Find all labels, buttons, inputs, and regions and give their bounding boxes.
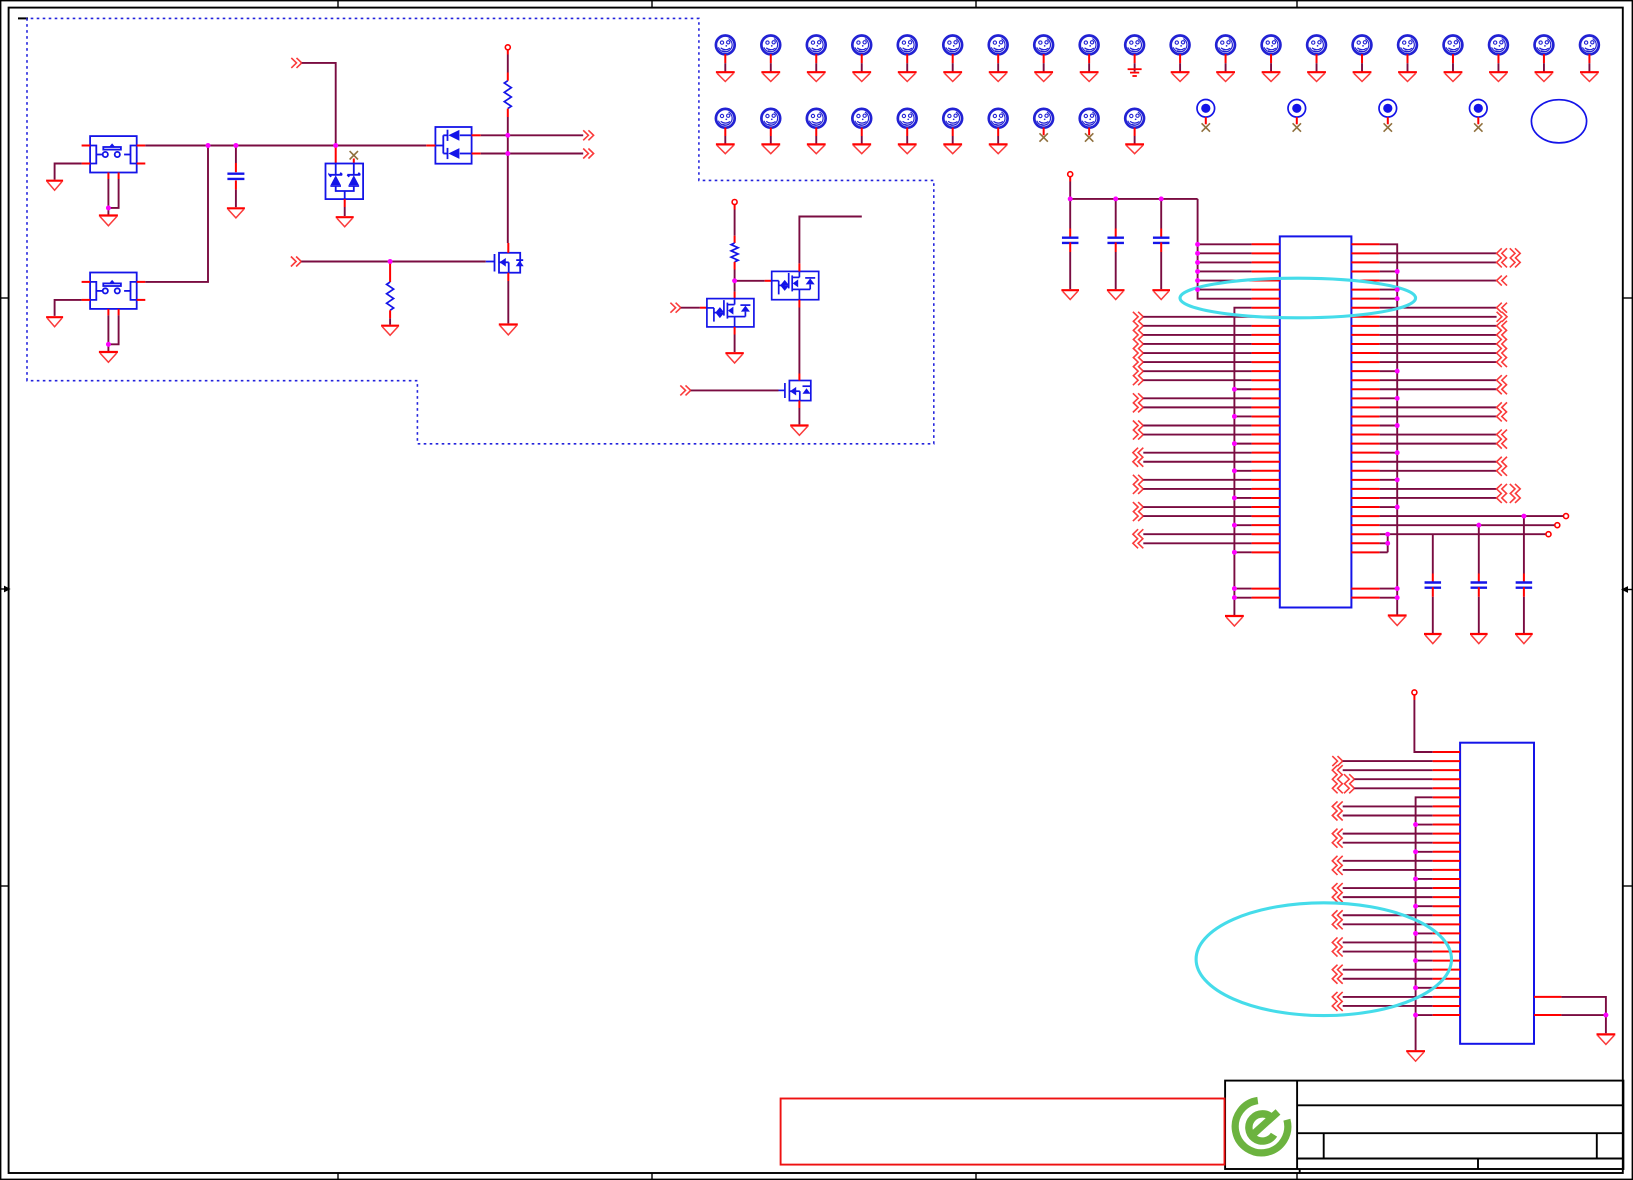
ground D1 xyxy=(336,217,354,227)
wire U1 left pin 23 xyxy=(1234,443,1251,445)
connector U2 pin 26 xyxy=(1332,974,1342,984)
junction bus3 pin 27 xyxy=(1395,477,1400,482)
net flag M10 xyxy=(1125,36,1144,55)
capacitor C1 xyxy=(227,174,244,179)
wire U2 pin 4 xyxy=(1354,778,1432,780)
junction bus1 pin 5 xyxy=(1195,278,1200,283)
wire U1 right pin 21 xyxy=(1380,425,1398,427)
junction C1a xyxy=(1068,197,1073,202)
wire U1 right pin 7 xyxy=(1380,298,1398,300)
U2 left pins xyxy=(1433,752,1562,1015)
wire decoupling rail xyxy=(1069,177,1071,182)
junction A3 xyxy=(333,143,338,148)
junction bus2 pin 20 xyxy=(1232,414,1237,419)
wire U1 left pin 11 xyxy=(1143,334,1251,336)
net flag N3 xyxy=(807,109,826,128)
connector U2 pin 16 xyxy=(1332,883,1342,893)
junction bus2 pin 32 xyxy=(1232,523,1237,528)
connector U1 right pin 12 xyxy=(1497,339,1507,349)
wire SW1 bottom pins xyxy=(107,179,109,215)
wire U1 right pin 16 xyxy=(1380,379,1497,381)
wire U2 pin 22 xyxy=(1343,941,1433,943)
pin SW2.4 xyxy=(137,299,146,301)
pin D1.1 xyxy=(335,146,337,164)
net flag M8 xyxy=(1034,36,1053,55)
transistor Q2 (protected PMOS) xyxy=(772,271,819,299)
junction bus1 pin 1 xyxy=(1195,242,1200,247)
wire U2 pin 24 xyxy=(1416,960,1433,962)
ground C4 xyxy=(1152,290,1170,299)
junction bus2 pin 23 xyxy=(1232,441,1237,446)
wire node to Q1 drain xyxy=(507,135,509,153)
junction bus2 pin 39 xyxy=(1232,586,1237,591)
ground C6 xyxy=(1470,634,1488,644)
ground bus4 xyxy=(1406,1051,1425,1061)
wire U1 right pin 18 xyxy=(1380,397,1398,399)
ground C1 xyxy=(227,208,245,218)
connector U1 left pin 10 xyxy=(1133,321,1143,331)
wire SW2 to main net xyxy=(145,146,208,282)
pin SW1.4 xyxy=(137,163,146,165)
junction D34 xyxy=(1385,541,1390,546)
connector P4 (gate in) xyxy=(291,257,301,267)
wire U1 left pin 4 xyxy=(1198,270,1252,272)
wire cap C6 bottom xyxy=(1478,597,1480,633)
bus2 (U1 left ground bus) xyxy=(1234,308,1251,615)
pin Q2 source xyxy=(798,300,800,308)
wire D2 out1 xyxy=(481,134,584,136)
wire U2 pin 25 xyxy=(1343,969,1433,971)
connector U1 right pin 11 xyxy=(1497,330,1507,340)
net flag N8 xyxy=(1034,109,1053,128)
wire cap C7 top xyxy=(1523,516,1525,573)
pin R2.1 xyxy=(389,262,391,283)
junction C2a xyxy=(1113,197,1118,202)
connector P5 (gate in) xyxy=(670,303,680,313)
pin Q4 source xyxy=(798,401,800,408)
connector U2 pin 10 xyxy=(1332,829,1342,839)
pin D2.1 xyxy=(426,145,435,147)
wire U1 right pin 5 xyxy=(1380,280,1497,282)
junction A5 xyxy=(505,151,510,156)
junction A1 xyxy=(206,143,211,148)
wire U1 right pin 40 xyxy=(1380,597,1398,599)
wire U1 left pin 33 xyxy=(1143,533,1251,535)
junction bus4 pin 21 xyxy=(1413,931,1418,936)
port X3 xyxy=(1546,532,1551,537)
connector U1 right pin 8 xyxy=(1497,303,1507,313)
connector U1 right pin 16 xyxy=(1497,375,1507,385)
wire Q3 source to ground xyxy=(734,335,736,353)
pin R2.2 xyxy=(389,310,391,318)
wire net KEY main xyxy=(145,145,426,147)
wire U1 right pin 11 xyxy=(1380,334,1497,336)
wire Q2 drain to top xyxy=(799,217,861,264)
pin Q3 gate xyxy=(700,307,707,309)
wire U1 left pin 24 xyxy=(1143,452,1251,454)
wire U1 right pin 4 xyxy=(1380,270,1398,272)
wire U2 pin1 net xyxy=(1413,695,1415,700)
wire cap C5 bottom xyxy=(1432,597,1434,633)
U1 left pins xyxy=(1252,244,1380,597)
wire U1 right pin 17 xyxy=(1380,388,1497,390)
wire U2 pin 13 xyxy=(1343,860,1433,862)
wire U1 right pin 25 xyxy=(1380,461,1497,463)
pin R1.2 xyxy=(507,109,509,117)
wire U1 left pin 2 xyxy=(1198,252,1252,254)
wire U1 right pin 9 xyxy=(1380,316,1497,318)
wire U1 left pin 1 xyxy=(1198,243,1252,245)
junction bus1 pin 3 xyxy=(1195,260,1200,265)
ellipse marker (blue) xyxy=(1531,100,1586,143)
resistor R3 xyxy=(731,243,738,262)
connector U1 right pin 10 xyxy=(1497,321,1507,331)
net flag M5 xyxy=(898,36,917,55)
wire P1 to main net xyxy=(302,63,336,146)
ellipse marker 2 (cyan) xyxy=(1196,903,1451,1016)
pin Q1 source xyxy=(507,273,509,281)
pin D1.3 xyxy=(344,199,346,207)
connector U1 right pin 17 xyxy=(1497,384,1507,394)
wire U2 pin 19 xyxy=(1343,914,1433,916)
junction B1 xyxy=(732,278,737,283)
pin C4.1 xyxy=(1160,229,1162,239)
connector U1 right pin 19 xyxy=(1497,402,1507,412)
wire P4 to Q1 gate xyxy=(301,261,486,263)
connector U1 right pin 29 xyxy=(1497,493,1507,503)
pin SW2.2 xyxy=(137,281,146,283)
wire U1 right pin 27 xyxy=(1380,479,1398,481)
wire U2 right ground xyxy=(1561,997,1606,1033)
wire cap C2 top xyxy=(1069,199,1071,229)
junction bus4 pin 12 xyxy=(1413,849,1418,854)
annotation box (red) xyxy=(781,1099,1225,1165)
ground SW2 bottom xyxy=(99,352,118,362)
wire U1 right pin 23 xyxy=(1380,443,1497,445)
wire U1 left pin 27 xyxy=(1143,479,1251,481)
net flag N6 xyxy=(943,109,962,128)
connector U1 left pin 13 xyxy=(1133,348,1143,358)
wire U1 right pin 2 xyxy=(1380,252,1497,254)
net flag N5 xyxy=(898,109,917,128)
connector U1 left pin 12 xyxy=(1133,339,1143,349)
connector P1 (input) xyxy=(291,58,301,68)
pin SW1.6 xyxy=(118,173,120,180)
bus1 (U1 supply rail) xyxy=(1198,199,1252,299)
wire U1 left pin 39 xyxy=(1234,588,1251,590)
junction bus3 pin 4 xyxy=(1395,269,1400,274)
section outline (dotted) xyxy=(27,18,934,443)
connector U1 right pin 28 xyxy=(1497,484,1507,494)
wire U1 right pin 29 xyxy=(1380,497,1497,499)
port VIN (middle) xyxy=(732,200,737,205)
connector U2 pin 28 xyxy=(1332,992,1342,1002)
net flag M1 xyxy=(716,36,735,55)
connector U2 pin 17 xyxy=(1332,892,1342,902)
wire Q4 source to ground xyxy=(798,408,800,424)
ground C3 xyxy=(1107,290,1125,299)
wire U1 left pin 17 xyxy=(1234,388,1251,390)
wire U1 left pin 5 xyxy=(1198,280,1252,282)
pin SW2.3 xyxy=(82,299,91,301)
wire U1 right pin 24 xyxy=(1380,452,1398,454)
junction bus4 pin 30 xyxy=(1413,1013,1418,1018)
net flag M15 xyxy=(1353,36,1372,55)
junction bus3 pin 6 xyxy=(1395,287,1400,292)
wire cap C4 bottom xyxy=(1160,252,1162,289)
transistor Q4 (NMOS) xyxy=(779,381,811,401)
net flag N1 xyxy=(716,109,735,128)
connector P2 (out) xyxy=(583,130,593,140)
port VCC (resistor R1 top) xyxy=(505,45,510,50)
IC U1 xyxy=(1280,236,1352,607)
wire U1 pin32 net xyxy=(1380,524,1555,526)
IC U2 xyxy=(1460,743,1534,1044)
junction bus2 pin 40 xyxy=(1232,595,1237,600)
resistor R1 xyxy=(504,81,511,109)
net flag M13 xyxy=(1262,36,1281,55)
pin Q4 drain xyxy=(798,374,800,381)
wire C1 to ground xyxy=(235,190,237,208)
connector U2 pin 5 xyxy=(1332,783,1342,793)
pin SW2.6 xyxy=(118,309,120,316)
connector U1 left pin 9 xyxy=(1133,312,1143,322)
wire U1 left pin 29 xyxy=(1234,497,1251,499)
wire U1 left pin 40 xyxy=(1234,597,1251,599)
wire U1 left pin 30 xyxy=(1143,506,1251,508)
connector U1 left pin 19 xyxy=(1133,402,1143,412)
connector U1 left pin 28 xyxy=(1133,484,1143,494)
wire U1 left pin 12 xyxy=(1143,343,1251,345)
connector U2 pin 11 xyxy=(1332,838,1342,848)
ground SW2 left xyxy=(46,317,63,327)
junction U2 right xyxy=(1604,1013,1609,1018)
logo (EasyEDA) xyxy=(1235,1101,1288,1153)
wire Q1 source to ground xyxy=(507,281,509,323)
net flag M14 xyxy=(1307,36,1326,55)
connector U2 pin 13 xyxy=(1332,856,1342,866)
connector U1 right pin 14 xyxy=(1497,357,1507,367)
junction D32 xyxy=(1476,523,1481,528)
wire SW2 bottom pins xyxy=(107,315,109,351)
connector U2 pin 22 xyxy=(1332,937,1342,947)
capacitor C6 xyxy=(1471,583,1488,588)
port X2 xyxy=(1555,523,1560,528)
connector U1 left pin 33 xyxy=(1133,529,1143,539)
connector U2 pin 7 xyxy=(1332,801,1342,811)
pin C7.2 xyxy=(1523,587,1525,597)
net flag M6 xyxy=(943,36,962,55)
ground SW1 left xyxy=(46,181,63,191)
wire U1 left pin 13 xyxy=(1143,352,1251,354)
junction bus4 pin 15 xyxy=(1413,877,1418,882)
pin C3.1 xyxy=(1115,229,1117,239)
wire U1 left pin 31 xyxy=(1143,515,1251,517)
tvs diode D1 xyxy=(326,164,364,200)
connector U1 right pin 22 xyxy=(1497,430,1507,440)
ellipse marker 1 (cyan) xyxy=(1180,278,1416,318)
junction bus3 pin 40 xyxy=(1395,595,1400,600)
ground R2 xyxy=(381,326,399,336)
ground bus3 xyxy=(1388,616,1407,626)
wire U1 left pin 32 xyxy=(1234,524,1251,526)
ground C7 xyxy=(1515,634,1533,644)
wire P5 to Q3 gate xyxy=(681,307,700,309)
wire U2 pin 20 xyxy=(1343,923,1433,925)
connector U2 pin 29 xyxy=(1332,1001,1342,1011)
connector U1 left pin 21 xyxy=(1133,421,1143,431)
connector U2 pin 14 xyxy=(1332,865,1342,875)
pin C1.1 xyxy=(235,163,237,172)
junction bus4 pin 27 xyxy=(1413,985,1418,990)
wire U1 left pin 26 xyxy=(1234,470,1251,472)
wire U1 left pin 14 xyxy=(1143,361,1251,363)
wire U2 pin 3 xyxy=(1343,769,1433,771)
wire U1 right pin 26 xyxy=(1380,470,1497,472)
pin D2.2 xyxy=(472,134,481,136)
junction bus1 pin 6 xyxy=(1195,287,1200,292)
wire U1 left pin 9 xyxy=(1143,316,1251,318)
wire cap C2 bottom xyxy=(1069,252,1071,289)
wire U2 pin 29 xyxy=(1343,1005,1433,1007)
junction dots layer xyxy=(106,133,1608,1018)
junction bus2 pin 26 xyxy=(1232,468,1237,473)
wire R3 to node xyxy=(734,270,736,281)
wire U2 pin 28 xyxy=(1343,996,1433,998)
wire U1 right pin 3 xyxy=(1380,261,1497,263)
wire U2 pin 17 xyxy=(1343,896,1433,898)
connector U2 pin 23 xyxy=(1332,947,1342,957)
wire U1 pin33-35 net xyxy=(1380,533,1546,535)
junction bus3 pin 24 xyxy=(1395,450,1400,455)
bus3 (U1 right ground bus) xyxy=(1380,244,1398,614)
wire U1 left pin 16 xyxy=(1143,379,1251,381)
connector U1 right pin 9 xyxy=(1497,312,1507,322)
wire U1 right pin 10 xyxy=(1380,325,1497,327)
connector U1 right pin 13 xyxy=(1497,348,1507,358)
pin Q3 drain xyxy=(734,292,736,299)
wire U2 pin 12 xyxy=(1416,851,1433,853)
wire U1 right pin 6 xyxy=(1380,289,1398,291)
wire U1 right pin 30 xyxy=(1380,506,1398,508)
wire Q2 source to Q4 drain xyxy=(798,308,800,374)
wire U2 pin 9 xyxy=(1416,824,1433,826)
junction bus1 pin 4 xyxy=(1195,269,1200,274)
connector U1 left pin 15 xyxy=(1133,366,1143,376)
wire P6 to Q4 gate xyxy=(691,389,779,391)
wire U2 pin 30 xyxy=(1416,1014,1433,1016)
junction bus2 pin 17 xyxy=(1232,387,1237,392)
connector U2 pin 2 xyxy=(1332,756,1342,766)
junction A6 xyxy=(388,259,393,264)
test point TP1 xyxy=(1197,100,1215,118)
connector U1 left pin 18 xyxy=(1133,393,1143,403)
capacitor C4 xyxy=(1153,238,1170,243)
junction bus3 pin 7 xyxy=(1395,296,1400,301)
connector P3 (out) xyxy=(583,149,593,159)
pin Q1 drain xyxy=(507,243,509,253)
connector U2 pin 20 xyxy=(1332,919,1342,929)
ground Q3 xyxy=(725,353,743,363)
junction bus3 pin 18 xyxy=(1395,396,1400,401)
connector U1 left pin 31 xyxy=(1133,511,1143,521)
wire U1 left pin 3 xyxy=(1198,261,1252,263)
wire D1 to ground xyxy=(344,207,346,216)
title block xyxy=(1225,1081,1623,1173)
pin SW1.3 xyxy=(82,163,91,165)
junction bus4 pin 18 xyxy=(1413,904,1418,909)
wire U1 right pin 20 xyxy=(1380,415,1497,417)
connector U1 right pin 20 xyxy=(1497,411,1507,421)
test point TP4 xyxy=(1470,100,1488,118)
net flag M12 xyxy=(1216,36,1235,55)
net flag M19 xyxy=(1535,36,1554,55)
net flag M2 xyxy=(761,36,780,55)
test point TP3 xyxy=(1379,100,1397,118)
connector U1 left pin 24 xyxy=(1133,448,1143,458)
pin R3.2 xyxy=(734,262,736,270)
pin SW1.1 xyxy=(82,145,91,147)
junction D33 xyxy=(1385,532,1390,537)
connector U1 left pin 22 xyxy=(1133,430,1143,440)
wire U1 pin31 net xyxy=(1380,515,1564,517)
pin C5.1 xyxy=(1432,574,1434,584)
wire U1 left pin 21 xyxy=(1143,425,1251,427)
wire U1 left pin 20 xyxy=(1234,415,1251,417)
ground bus2 xyxy=(1225,616,1244,626)
pin SW2.5 xyxy=(107,309,109,316)
wire U2 pin 16 xyxy=(1343,887,1433,889)
wire U1 left pin 10 xyxy=(1143,325,1251,327)
wire U1 right pin 15 xyxy=(1380,370,1398,372)
ground U2 right xyxy=(1597,1034,1616,1044)
net flag M18 xyxy=(1489,36,1508,55)
connector U1 right pin 2 xyxy=(1497,248,1507,258)
pin SW2.1 xyxy=(82,281,91,283)
wire U1 right pin 19 xyxy=(1380,406,1497,408)
ground C2 xyxy=(1061,290,1079,299)
junction C3a xyxy=(1159,197,1164,202)
pin C7.1 xyxy=(1523,574,1525,584)
wire U2 pin 26 xyxy=(1343,978,1433,980)
transistor Q3 (protected PMOS) xyxy=(707,299,754,327)
connector U1 left pin 11 xyxy=(1133,330,1143,340)
junction bus2 pin 29 xyxy=(1232,496,1237,501)
pin C6.2 xyxy=(1478,587,1480,597)
pin Q2 drain xyxy=(798,263,800,271)
connector U2 pin 3 xyxy=(1332,765,1342,775)
wire node to Q3 drain xyxy=(734,281,736,292)
capacitor C3 xyxy=(1107,238,1124,243)
connector U1 right pin 3 xyxy=(1497,257,1507,267)
pin C3.2 xyxy=(1115,242,1117,252)
junction D31 xyxy=(1522,514,1527,519)
connector U1 left pin 25 xyxy=(1133,457,1143,467)
junction bus1 pin 2 xyxy=(1195,251,1200,256)
wire R1 to node xyxy=(507,117,509,135)
wire pin34 tie xyxy=(1380,542,1388,544)
junction A4 xyxy=(505,133,510,138)
pin C2.1 xyxy=(1069,229,1071,239)
wire U2 pin 8 xyxy=(1343,814,1433,816)
bus4 (U2 ground bus) xyxy=(1416,797,1433,1050)
port X1 xyxy=(1564,514,1569,519)
pin C6.1 xyxy=(1478,574,1480,584)
capacitor C7 xyxy=(1516,583,1533,588)
wire cap C7 bottom xyxy=(1523,597,1525,633)
resistor R2 xyxy=(387,282,394,310)
connector U1 right pin 5 xyxy=(1497,276,1507,286)
